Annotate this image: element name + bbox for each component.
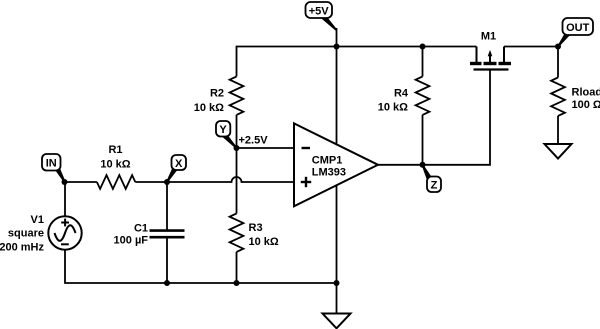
ground right bbox=[545, 144, 572, 159]
svg-text:OUT: OUT bbox=[566, 22, 590, 34]
power +5V bbox=[306, 2, 337, 47]
wire M1 drain to OUT junction bbox=[504, 46, 558, 48]
junction C1 ground bbox=[164, 280, 170, 286]
svg-text:Y: Y bbox=[219, 124, 227, 136]
resistor R1 bbox=[97, 175, 135, 189]
wire X junction to comparator + input with hop over R3 column bbox=[167, 177, 294, 182]
transistor M1 bbox=[470, 47, 511, 70]
wire Y junction down to R3 bbox=[236, 148, 238, 214]
resistor R3 bbox=[230, 214, 244, 252]
svg-text:Z: Z bbox=[431, 180, 438, 192]
wire comparator V+ pin to +5V rail bbox=[336, 47, 338, 145]
wire R3 to ground rail bbox=[236, 252, 238, 283]
svg-text:+5V: +5V bbox=[309, 5, 330, 17]
svg-text:R2: R2 bbox=[210, 88, 224, 100]
junction IN bbox=[62, 179, 68, 185]
node X bbox=[167, 155, 186, 182]
wire IN junction to R1 bbox=[65, 181, 97, 183]
svg-text:R3: R3 bbox=[249, 222, 263, 234]
C1 value label bbox=[114, 223, 149, 247]
wire R1 to X junction bbox=[135, 181, 167, 183]
node Z bbox=[422, 166, 441, 193]
svg-text:C1: C1 bbox=[134, 223, 148, 235]
svg-text:100 Ω: 100 Ω bbox=[572, 99, 600, 111]
R1 value label bbox=[100, 144, 130, 171]
R4 value label bbox=[378, 88, 409, 114]
wire Y junction to comparator - input bbox=[237, 147, 295, 149]
R3 value label bbox=[249, 222, 279, 248]
wire comparator V- pin to ground rail bbox=[336, 185, 338, 283]
svg-text:R1: R1 bbox=[108, 144, 122, 156]
wire X junction down to C1 bbox=[166, 182, 168, 230]
wire comparator output to Z junction and M1 gate bbox=[378, 70, 490, 165]
node +2.5V label bbox=[239, 135, 269, 147]
wire V1 top bbox=[64, 182, 66, 216]
wire V1 bottom to ground rail bbox=[65, 250, 337, 283]
wire OUT junction down to Rload bbox=[557, 47, 559, 78]
svg-text:X: X bbox=[175, 158, 183, 170]
resistor Rload bbox=[551, 78, 565, 116]
junction Y bbox=[234, 145, 240, 151]
svg-text:IN: IN bbox=[46, 158, 57, 170]
svg-text:200 mHz: 200 mHz bbox=[0, 241, 44, 253]
svg-text:+2.5V: +2.5V bbox=[239, 135, 269, 147]
svg-text:M1: M1 bbox=[481, 30, 496, 42]
wire C1 to ground rail bbox=[166, 238, 168, 283]
Rload value label bbox=[572, 87, 600, 112]
wire R4 top junction bbox=[422, 47, 424, 77]
junction OUT bbox=[555, 44, 561, 50]
wire Rload to right ground bbox=[557, 116, 559, 144]
svg-text:CMP1: CMP1 bbox=[312, 154, 343, 166]
node OUT bbox=[558, 18, 593, 46]
junction center ground bbox=[334, 280, 340, 286]
resistor R2 bbox=[230, 77, 244, 115]
svg-text:10 kΩ: 10 kΩ bbox=[100, 159, 130, 171]
svg-text:10 kΩ: 10 kΩ bbox=[378, 102, 408, 114]
node IN bbox=[42, 154, 65, 182]
node Y bbox=[216, 121, 237, 148]
wire +5V rail top bbox=[236, 115, 238, 148]
junction +5V rail bbox=[334, 44, 340, 50]
svg-text:10 kΩ: 10 kΩ bbox=[194, 102, 224, 114]
V1 value label bbox=[0, 214, 44, 253]
junction R3 ground bbox=[234, 280, 240, 286]
svg-text:R4: R4 bbox=[394, 88, 409, 100]
svg-text:square: square bbox=[8, 228, 44, 240]
svg-text:10 kΩ: 10 kΩ bbox=[249, 236, 279, 248]
svg-text:Rload: Rload bbox=[572, 87, 600, 99]
junction X bbox=[164, 179, 170, 185]
capacitor C1 bbox=[150, 231, 185, 238]
svg-text:100 µF: 100 µF bbox=[114, 235, 149, 247]
resistor R4 bbox=[416, 77, 430, 115]
R2 value label bbox=[194, 88, 224, 115]
svg-text:LM393: LM393 bbox=[312, 167, 346, 179]
ground center bbox=[323, 283, 351, 328]
voltage source V1 bbox=[48, 216, 81, 249]
junction Z bbox=[420, 162, 426, 168]
M1 reference label bbox=[481, 30, 496, 42]
op-amp U1 comparator CMP1 LM393 bbox=[294, 123, 378, 206]
junction R4 top bbox=[420, 44, 426, 50]
svg-text:V1: V1 bbox=[31, 214, 44, 226]
wire R2 top to +5V rail corner bbox=[237, 47, 477, 77]
wire R4 bottom to Z junction bbox=[422, 115, 424, 165]
